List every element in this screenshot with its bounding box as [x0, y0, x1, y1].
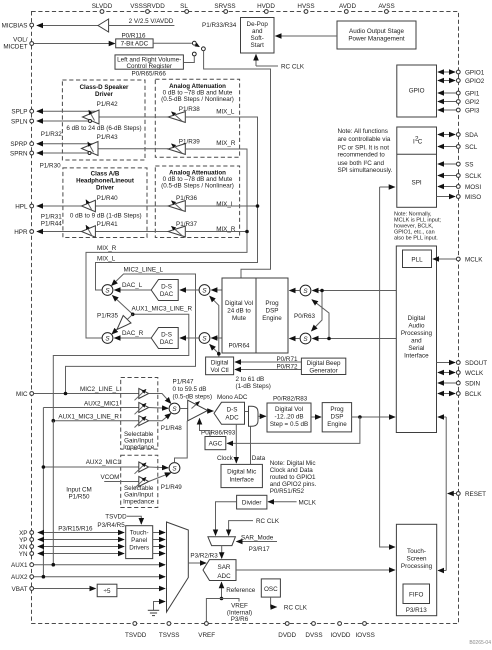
wire row3 to record summer: [149, 414, 171, 421]
svg-text:P1/R40: P1/R40: [97, 195, 119, 202]
svg-text:MIX_R: MIX_R: [216, 226, 236, 233]
amp headphone left P1/R40: [82, 200, 96, 212]
wire AGC feed: [227, 417, 360, 443]
svg-text:MCLK: MCLK: [465, 257, 483, 264]
svg-text:HVDD: HVDD: [257, 3, 275, 10]
svg-text:use both I²C and: use both I²C and: [338, 160, 385, 167]
junction MIC bypass: [64, 392, 68, 396]
block Digital Vol Ctl (beep): [206, 357, 234, 375]
wire MCLK to PLL: [433, 258, 456, 260]
svg-text:AGC: AGC: [209, 441, 223, 448]
wire AUX2 to mux: [34, 576, 165, 578]
wire SDOUT: [437, 362, 456, 364]
svg-text:RESET: RESET: [465, 491, 486, 498]
svg-text:GPI2: GPI2: [465, 99, 480, 106]
svg-text:SPRP: SPRP: [10, 141, 27, 148]
svg-text:P1/R35: P1/R35: [97, 313, 119, 320]
block AGC: [205, 437, 226, 450]
pin SDOUT: [456, 360, 487, 367]
wire switch to digital volume block: [204, 51, 271, 278]
mux SAR clock select: [208, 537, 236, 546]
pin GPI1: [456, 91, 479, 98]
pin MCLK: [456, 257, 483, 264]
wire driver to mux XN: [153, 546, 165, 548]
svg-text:D-S: D-S: [161, 331, 172, 338]
block FIFO: [403, 584, 430, 604]
svg-text:P0/R63: P0/R63: [294, 313, 316, 320]
svg-text:FIFO: FIFO: [409, 592, 423, 599]
wire serial interface to touch-screen: [445, 417, 447, 571]
wire VCOM row1 to summer: [149, 466, 168, 469]
svg-text:WCLK: WCLK: [465, 370, 484, 377]
pin VBAT: [12, 586, 34, 593]
svg-text:Digital: Digital: [211, 360, 229, 367]
svg-text:P1/R38: P1/R38: [179, 106, 201, 113]
svg-text:Digital Beep: Digital Beep: [307, 360, 341, 367]
svg-text:Touch-: Touch-: [130, 530, 149, 537]
wire XN: [38, 546, 124, 548]
block Digital Audio Processing and Serial Interface: [396, 246, 436, 433]
pin RESET: [456, 491, 486, 498]
svg-text:Step = 0.5 dB: Step = 0.5 dB: [270, 421, 308, 428]
dashed box Selectable Gain/Input Impedance (VCOM): [121, 455, 158, 507]
block Left and Right Volume-Control Register: [115, 55, 183, 70]
wire AUX1_MIC3_LINE_R input row: [53, 420, 139, 422]
wire GPIO1: [438, 71, 455, 73]
amp input row 2: [135, 403, 149, 415]
svg-text:Note: Digital Mic: Note: Digital Mic: [270, 460, 316, 467]
pin TSVSS: [159, 622, 180, 639]
svg-text:Panel: Panel: [131, 537, 147, 544]
wire power management to De-Pop: [276, 35, 338, 37]
svg-text:SL: SL: [180, 3, 188, 10]
svg-text:DVDD: DVDD: [278, 632, 296, 639]
svg-text:YP: YP: [19, 537, 27, 544]
junction MIX_L tap: [256, 204, 260, 208]
svg-text:Class A/B: Class A/B: [91, 170, 120, 177]
pin AUX2: [11, 574, 34, 581]
block SAR ADC: [203, 560, 236, 581]
note digital mic routing: [270, 460, 317, 495]
svg-text:P1/R36: P1/R36: [176, 195, 198, 202]
svg-text:I²C or SPI. It is not: I²C or SPI. It is not: [338, 144, 390, 151]
svg-text:XP: XP: [19, 530, 27, 537]
wire SPI to touch-screen processing: [380, 186, 395, 188]
svg-text:also be PLL input.: also be PLL input.: [394, 236, 438, 242]
wire SAR ADC to touch-screen processing: [236, 569, 395, 571]
svg-text:P0/R71: P0/R71: [276, 356, 298, 363]
amp input row 1: [135, 389, 149, 401]
wire GPI1: [438, 92, 456, 94]
svg-text:P0/R116: P0/R116: [121, 32, 146, 39]
svg-text:XN: XN: [19, 544, 28, 551]
svg-text:RC CLK: RC CLK: [256, 518, 280, 525]
wire HPL output: [37, 205, 82, 207]
wire driver to mux YP: [153, 539, 165, 541]
wire VREF internal stub: [222, 599, 240, 602]
wire YN: [38, 553, 124, 555]
wire summer to MICPGA: [180, 408, 188, 410]
wire OSC RC CLK output: [271, 597, 277, 607]
svg-text:MIX_L: MIX_L: [216, 108, 235, 115]
svg-text:C: C: [418, 139, 423, 146]
pin XN: [19, 544, 34, 551]
svg-text:AUX2_MIC1: AUX2_MIC1: [84, 400, 119, 407]
switch contact A: [192, 41, 196, 45]
pin MISO: [456, 194, 481, 201]
wire MISO: [437, 196, 456, 198]
pin YN: [19, 551, 34, 558]
svg-text:DAC: DAC: [160, 339, 174, 346]
wire digital vol to pre-DAC summer L: [211, 289, 222, 291]
svg-text:Engine: Engine: [327, 421, 347, 428]
wire attenuator P1/R39 to class-D amp R: [98, 148, 168, 150]
wire AUX1 vertical: [52, 421, 54, 565]
block De-Pop and Soft-Start: [241, 18, 275, 54]
svg-text:SDA: SDA: [465, 132, 479, 139]
svg-text:2 V/2.5 V/AVDD: 2 V/2.5 V/AVDD: [129, 18, 174, 25]
wire row2 to record summer: [149, 407, 168, 410]
amp class-D left P1/R42: [83, 110, 100, 124]
wire beep generator to vol ctl 1: [235, 361, 301, 363]
svg-text:-12..20 dB: -12..20 dB: [274, 414, 303, 421]
ground symbol: [148, 602, 165, 616]
pin SDA: [456, 132, 478, 139]
wire TSVDD to touch-panel drivers: [127, 516, 141, 524]
svg-text:MIC2_LINE_L: MIC2_LINE_L: [80, 386, 120, 393]
wire VBAT to divider: [34, 588, 96, 590]
wire beep vol to pre-DAC summer R: [210, 345, 219, 354]
svg-text:SDIN: SDIN: [465, 381, 480, 388]
svg-text:Generator: Generator: [309, 368, 337, 375]
dashed box Class A/B Headphone/Lineout Driver: [63, 168, 147, 238]
svg-text:Control Register: Control Register: [126, 63, 172, 70]
wire arrow into serial interface: [438, 416, 446, 418]
svg-text:B0265-04: B0265-04: [469, 640, 491, 645]
svg-text:P3/R15/R16: P3/R15/R16: [58, 526, 93, 533]
svg-text:7-Bit ADC: 7-Bit ADC: [121, 41, 149, 48]
wire MIC2_LINE_L bypass: [66, 274, 196, 394]
svg-text:HPL: HPL: [15, 203, 28, 210]
svg-text:Clock: Clock: [217, 455, 234, 462]
svg-text:SAR_Mode: SAR_Mode: [241, 535, 274, 542]
attenuator P1/R39: [168, 144, 185, 155]
wire AUX1 to mux: [34, 564, 165, 566]
svg-text:and: and: [411, 338, 422, 345]
wire attenuator P1/R38 to class-D amp L: [99, 116, 168, 118]
svg-text:AUX2: AUX2: [11, 574, 28, 581]
wire mux to SAR ADC: [188, 562, 206, 564]
svg-text:YN: YN: [19, 551, 28, 558]
svg-text:SLVDD: SLVDD: [92, 3, 113, 10]
wire mid summer R to D-S DAC: [180, 337, 199, 339]
svg-text:SRVSS: SRVSS: [214, 3, 235, 10]
svg-text:Start: Start: [251, 42, 265, 49]
wire AUX1 bypass diagonal through P1/R35 amp to DAC_R summer: [112, 314, 133, 334]
wire MICPGA to mono ADC: [208, 410, 214, 412]
amp headphone right P1/R41: [82, 225, 96, 237]
block D-S DAC left: [151, 280, 178, 301]
mux ADC source select: [249, 406, 259, 426]
svg-text:P1/R41: P1/R41: [97, 221, 119, 228]
pin SPLP: [11, 109, 33, 116]
svg-text:P3/R17: P3/R17: [249, 546, 271, 553]
svg-text:Soft-: Soft-: [251, 35, 264, 42]
wire beep vol to pre-DAC summer L: [210, 296, 219, 357]
svg-text:SPLP: SPLP: [11, 109, 27, 116]
svg-text:P3/R6: P3/R6: [231, 616, 249, 623]
block D-S DAC right: [151, 328, 178, 349]
pin VSSSRVDD: [130, 3, 165, 13]
svg-text:P1/R44: P1/R44: [41, 221, 63, 228]
wire MCLK to Divider: [268, 501, 296, 503]
svg-text:P1/R49: P1/R49: [161, 484, 183, 491]
wire Divider to clock mux: [216, 502, 237, 536]
wire AUX2 vertical: [42, 408, 44, 577]
svg-text:AUX1_MIC3_LINE_R: AUX1_MIC3_LINE_R: [132, 306, 193, 313]
svg-text:Digital: Digital: [408, 315, 426, 322]
svg-text:P0/R65/R66: P0/R65/R66: [132, 71, 167, 78]
junction AUX2 second row: [42, 465, 46, 469]
svg-text:VREF: VREF: [198, 632, 215, 639]
pin VOL/MICDET: [3, 37, 33, 51]
svg-text:MICDET: MICDET: [3, 44, 27, 51]
pin HVDD: [257, 3, 275, 13]
wire MIC input row: [34, 393, 139, 395]
pin SL: [180, 3, 188, 13]
pin BCLK: [456, 391, 482, 398]
pin HVSS: [297, 3, 314, 13]
svg-text:Divider: Divider: [242, 500, 262, 507]
switch contact B: [202, 47, 206, 51]
pin GPI3: [456, 108, 479, 115]
svg-text:MIX_L: MIX_L: [97, 255, 116, 262]
pin SPRN: [10, 150, 34, 157]
svg-text:Processing: Processing: [401, 563, 433, 570]
wire GPI3: [438, 109, 456, 111]
pin MOSI: [456, 184, 481, 191]
svg-text:are controllable via: are controllable via: [338, 136, 391, 143]
svg-text:Mono ADC: Mono ADC: [217, 394, 248, 401]
svg-text:De-Pop: De-Pop: [247, 21, 269, 28]
svg-text:P1/R31: P1/R31: [41, 214, 63, 221]
block I2C / SPI: [397, 127, 437, 207]
svg-text:(0.5-dB Steps / Nonlinear): (0.5-dB Steps / Nonlinear): [161, 96, 234, 103]
svg-text:Vol Ctl: Vol Ctl: [210, 367, 228, 374]
svg-text:OSC: OSC: [264, 586, 278, 593]
pin WCLK: [456, 370, 484, 377]
junction cross-mix R: [327, 337, 331, 341]
svg-text:Interface: Interface: [229, 476, 254, 483]
wire clock mux to SAR ADC: [221, 546, 223, 559]
svg-text:RC CLK: RC CLK: [284, 605, 308, 612]
svg-text:DSP: DSP: [266, 308, 279, 315]
svg-text:MIX_R: MIX_R: [216, 140, 236, 147]
svg-text:÷5: ÷5: [104, 588, 111, 595]
wire VOL/MICDET to 7-bit ADC: [34, 43, 115, 45]
wire SPRN output: [37, 152, 91, 154]
wire row1 to record summer: [149, 394, 171, 404]
dashed box Class-D Speaker Driver: [62, 80, 145, 160]
pin SCL: [456, 144, 477, 151]
svg-text:SCLK: SCLK: [465, 173, 482, 180]
svg-text:MICBIAS: MICBIAS: [2, 22, 28, 29]
wire DAC_R to summer: [115, 337, 152, 339]
wire DAC_L to summer: [115, 289, 152, 291]
wire divider to mux: [117, 588, 165, 590]
pin DVDD: [278, 622, 296, 639]
svg-text:SAR: SAR: [218, 564, 231, 571]
svg-text:AUX1: AUX1: [11, 562, 28, 569]
wire RC CLK into De-Pop: [255, 55, 257, 67]
wire SS: [438, 163, 456, 165]
wire HPR output: [37, 231, 82, 233]
svg-text:Audio: Audio: [408, 323, 425, 330]
amp VCOM row 2: [135, 477, 149, 489]
wire WCLK: [438, 372, 455, 374]
svg-text:D-S: D-S: [227, 406, 238, 413]
wire AUX2_MIC1 second row: [43, 466, 138, 468]
svg-text:P1/R48: P1/R48: [161, 425, 183, 432]
wire arrow into touch-screen processing: [438, 570, 446, 572]
summing node record: [169, 403, 180, 414]
pin SRVSS: [214, 3, 235, 13]
svg-text:Touch-: Touch-: [407, 548, 426, 555]
pin SCLK: [456, 173, 482, 180]
svg-text:P0/R72: P0/R72: [276, 363, 298, 370]
pin SPRP: [10, 141, 33, 148]
wire driver to mux YN: [153, 553, 165, 555]
wire SPLP output: [37, 110, 96, 112]
svg-text:Digital Mic: Digital Mic: [227, 468, 256, 475]
wire driver to mux XP: [153, 532, 165, 534]
summing node VCOM: [169, 463, 180, 474]
wire MIX_R tap to P1/R37: [185, 231, 247, 233]
wire cross-mix R to L: [312, 300, 329, 339]
svg-text:HPR: HPR: [14, 229, 28, 236]
dashed box Analog Attenuation (speaker): [155, 79, 239, 157]
block OSC: [261, 579, 280, 597]
amp VCOM row 1: [135, 462, 149, 474]
svg-text:Drivers: Drivers: [129, 545, 149, 552]
pin DVSS: [305, 622, 322, 639]
wire YP: [38, 539, 124, 541]
wire digital mic data: [250, 426, 252, 464]
svg-text:P0/R51/R52: P0/R51/R52: [270, 488, 305, 495]
wire post-DSP summer L output: [290, 290, 301, 292]
svg-text:AUX1_MIC3_LINE_R: AUX1_MIC3_LINE_R: [58, 413, 119, 420]
svg-text:SPRN: SPRN: [10, 150, 28, 157]
svg-text:MIX_R: MIX_R: [97, 245, 117, 252]
svg-text:P3/R13: P3/R13: [406, 607, 428, 614]
svg-text:Power Management: Power Management: [348, 36, 405, 43]
svg-text:P0/R82/R83: P0/R82/R83: [273, 396, 308, 403]
wire VCOM summer to MICPGA reference: [175, 421, 188, 463]
svg-text:Mute: Mute: [232, 315, 246, 322]
wire RESET: [448, 493, 456, 495]
amp MICBIAS buffer: [98, 19, 109, 32]
svg-text:Reference: Reference: [226, 587, 256, 594]
wire post-DSP summer R output: [290, 338, 301, 340]
svg-text:AUX2_MIC1: AUX2_MIC1: [86, 459, 121, 466]
wire digital vol to prog DSP (ADC): [311, 416, 321, 418]
block Prog DSP Engine (ADC): [322, 403, 351, 432]
svg-text:P1/R47: P1/R47: [173, 379, 195, 386]
svg-text:6 dB to 24 dB (6-dB Steps): 6 dB to 24 dB (6-dB Steps): [66, 125, 141, 132]
svg-text:routed to GPIO1: routed to GPIO1: [270, 474, 316, 481]
wire SDIN: [438, 382, 456, 384]
pin HPL: [15, 203, 33, 210]
svg-text:Impedance: Impedance: [123, 498, 155, 505]
wire digital mic clock: [235, 424, 237, 463]
svg-text:GPIO2: GPIO2: [465, 78, 485, 85]
wire MICBIAS to buffer amp: [37, 25, 98, 27]
wire serial interface to summer L: [313, 290, 397, 292]
svg-text:TSVDD: TSVDD: [105, 514, 127, 521]
block Digital Vol (ADC): [267, 403, 311, 432]
svg-text:HVSS: HVSS: [297, 3, 314, 10]
svg-text:Headphone/Lineout: Headphone/Lineout: [76, 178, 134, 185]
pin MICBIAS: [2, 22, 34, 29]
wire AUX2_MIC1 input row: [43, 407, 138, 409]
junction MIX_R tap: [245, 230, 249, 234]
svg-text:ADC: ADC: [225, 414, 239, 421]
svg-text:SPLN: SPLN: [11, 118, 28, 125]
wire RC CLK to clock mux: [229, 521, 253, 536]
svg-text:D-S: D-S: [161, 283, 172, 290]
pin AVSS: [378, 3, 394, 13]
svg-text:Data: Data: [252, 455, 266, 462]
svg-text:VBAT: VBAT: [12, 586, 28, 593]
svg-text:Impedance: Impedance: [123, 444, 155, 451]
wire AGC gain control to MICPGA: [200, 419, 211, 437]
junction AUX2 pin: [42, 575, 46, 579]
svg-text:P1/R43: P1/R43: [97, 134, 119, 141]
svg-text:AVDD: AVDD: [339, 3, 356, 10]
svg-text:Screen: Screen: [407, 556, 427, 563]
switch contact C: [192, 52, 196, 56]
pin SDIN: [456, 381, 480, 388]
junction AGC tap: [358, 415, 362, 419]
summing node pre-DAC L: [199, 285, 210, 296]
svg-text:Engine: Engine: [262, 315, 282, 322]
svg-text:SPI simultaneously.: SPI simultaneously.: [338, 167, 393, 174]
svg-text:P3/R4/R5: P3/R4/R5: [97, 522, 125, 529]
svg-text:VCOM: VCOM: [101, 474, 120, 481]
block Digital Beep Generator: [301, 358, 345, 374]
svg-text:MISO: MISO: [465, 194, 481, 201]
svg-text:GPIO: GPIO: [409, 88, 425, 95]
pin IOVDD: [331, 622, 351, 639]
svg-text:P1/R39: P1/R39: [179, 138, 201, 145]
pin SLVDD: [92, 3, 113, 13]
pin SPLN: [11, 118, 34, 125]
svg-text:SPI: SPI: [412, 180, 422, 187]
wire mid summer L to D-S DAC: [180, 289, 199, 291]
wire MOSI: [438, 186, 456, 188]
wire XP: [38, 532, 124, 534]
pin AUX1: [11, 562, 34, 569]
amp class-D right P1/R43: [82, 142, 99, 156]
svg-text:RC CLK: RC CLK: [281, 63, 305, 70]
block PLL: [403, 250, 432, 268]
svg-text:AVSS: AVSS: [378, 3, 394, 10]
svg-text:DSP: DSP: [331, 414, 344, 421]
svg-text:MCLK: MCLK: [299, 499, 317, 506]
summing node pre-DAC R: [199, 333, 210, 344]
svg-text:DAC: DAC: [160, 291, 174, 298]
svg-text:ADC: ADC: [217, 573, 231, 580]
